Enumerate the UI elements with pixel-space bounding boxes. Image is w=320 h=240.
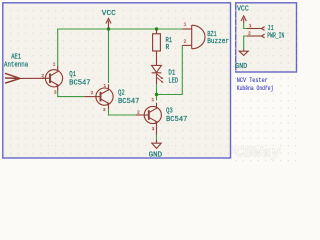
svg-text:1: 1 [249,23,252,29]
svg-text:D1: D1 [168,70,175,78]
svg-text:3: 3 [152,126,155,132]
main sheet [3,3,231,158]
svg-text:AE1: AE1 [11,54,21,62]
junction R1 top [155,27,158,30]
base pin Q2 wire red part [84,96,94,98]
svg-text:PWR_IN: PWR_IN [267,33,284,41]
ground symbol main [152,140,161,149]
wire buzzer pin2 down to node [157,45,183,94]
wire J1 pin2 to GND [244,36,247,50]
transistor Q3 [142,103,162,135]
ground symbol power box [239,50,248,56]
svg-text:BC547: BC547 [166,116,187,124]
grid dots overlay [4,4,230,158]
svg-text:3: 3 [103,107,106,113]
wire LED to Q3 collector [156,84,158,101]
svg-text:LED: LED [168,77,178,85]
base pin Q3 wire red part [136,114,142,116]
power box sheet [236,3,297,72]
svg-text:NCV Tester: NCV Tester [237,77,268,84]
svg-text:VCC: VCC [102,10,116,18]
svg-text:Q1: Q1 [69,71,76,79]
svg-text:VCC: VCC [237,6,249,14]
svg-text:Kuběna Ondřej: Kuběna Ondřej [237,85,274,92]
junction LED/buzzer/Q3 node [155,93,158,96]
svg-text:BC547: BC547 [118,98,139,106]
wire Q3 emitter to GND [156,135,158,141]
power flag VCC main [106,18,111,28]
wire Q2 emitter to Q3 base [109,109,137,115]
wire VCC to Q2 collector [108,29,110,83]
buzzer BZ1 [182,25,205,49]
base pin Q1 [43,77,46,79]
connector J1 pin2 [247,34,265,38]
svg-text:3: 3 [54,90,57,96]
resistor R1 [153,30,161,66]
svg-text:2: 2 [248,31,251,37]
antenna AE1 [5,73,46,83]
transistor Q2 [94,84,113,109]
svg-text:2: 2 [137,110,140,116]
junction VCC rail [107,27,110,30]
svg-text:2: 2 [91,90,94,96]
wire Q1 emitter to Q2 base [58,91,84,97]
svg-text:Antenna: Antenna [4,61,28,69]
svg-text:1: 1 [151,97,154,103]
transistor Q1 [43,66,63,91]
LED D1 [152,65,164,84]
wire J1 pin1 to VCC [244,23,247,29]
svg-text:BC547: BC547 [69,80,90,88]
svg-text:2: 2 [41,73,44,79]
svg-text:1: 1 [103,83,106,89]
wire VCC rail top [58,29,183,66]
svg-text:Buzzer: Buzzer [207,38,229,46]
svg-text:GND: GND [235,63,247,71]
power flag VCC in power box [241,16,246,23]
svg-text:GND: GND [149,152,162,160]
svg-text:2: 2 [184,39,187,45]
connector J1 pin1 [247,27,265,31]
svg-text:1: 1 [184,22,187,28]
svg-text:1: 1 [53,62,56,68]
svg-text:Q2: Q2 [118,89,125,97]
outside background [0,0,300,165]
svg-text:Q3: Q3 [166,108,173,116]
